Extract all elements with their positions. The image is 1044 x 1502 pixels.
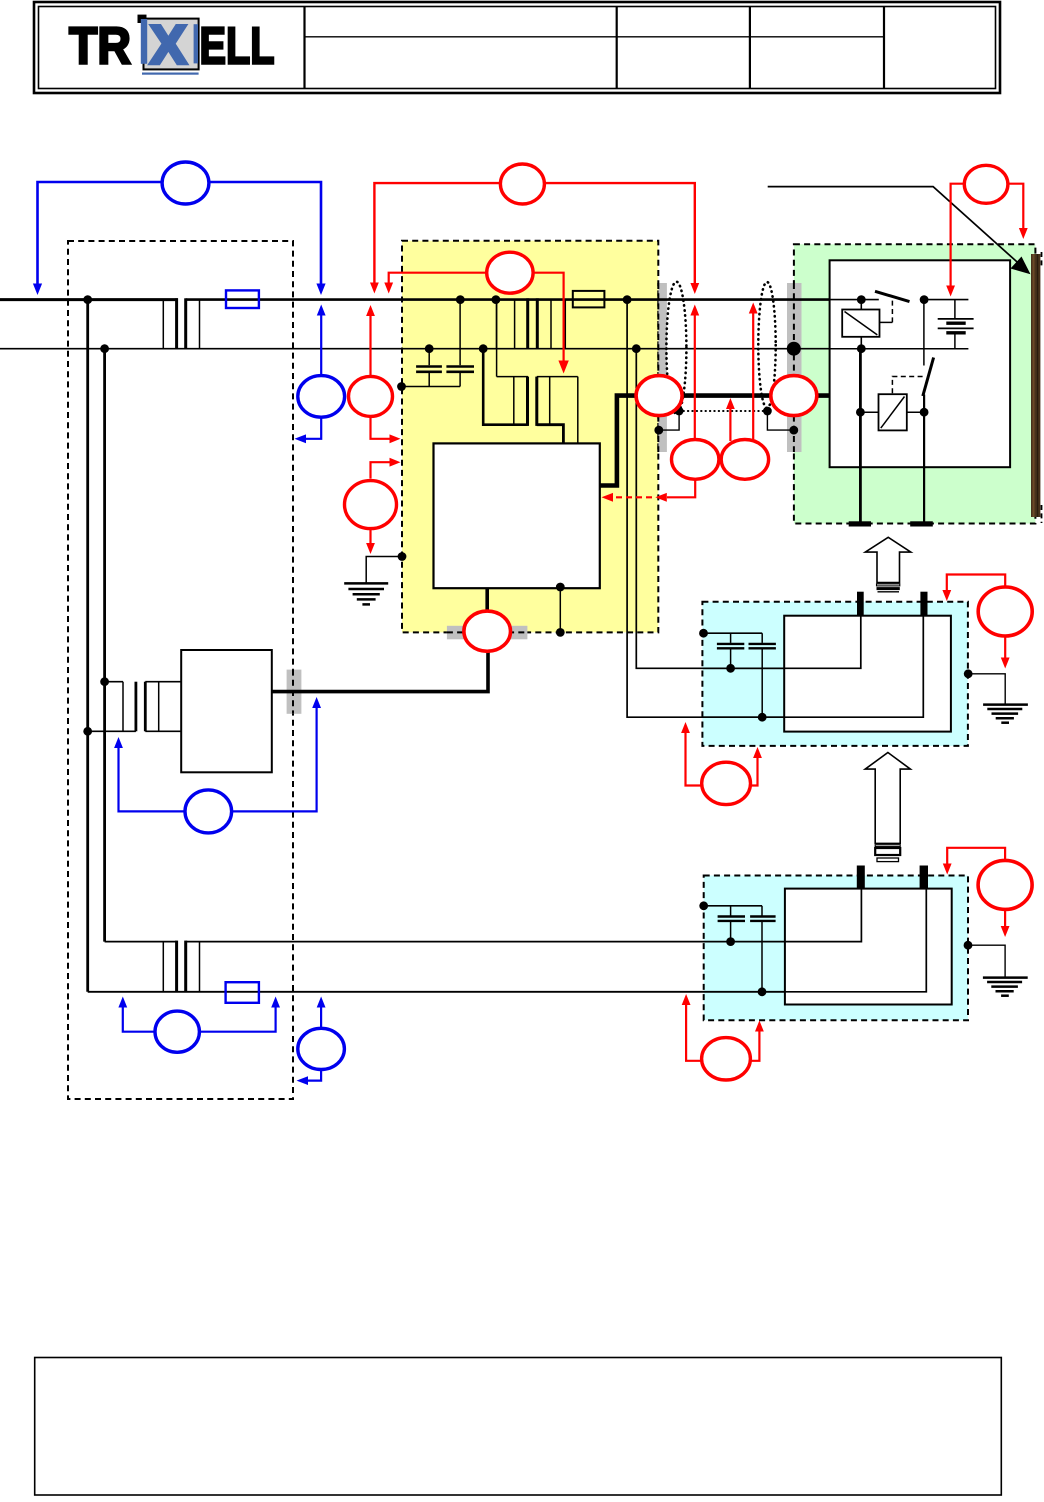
shield node dot right [763, 407, 772, 416]
ground wire cyan2 [968, 945, 1005, 977]
red callout circle 17 (cyan2 right) [978, 860, 1032, 909]
bus L inside white box [830, 299, 879, 301]
PE node dot on yellow edge [398, 552, 407, 561]
signal wire from bus L to battery box 1 [627, 300, 923, 718]
blue callout circle F [298, 1028, 345, 1069]
cap 2b lead top [761, 906, 763, 916]
blue fuse box on bottom bus B [226, 982, 259, 1003]
red callout 13 left branch into white box [951, 184, 965, 286]
relay K1 actuator link solid [880, 321, 893, 323]
big node dot bus N at green edge [787, 342, 801, 356]
red callout 4 arrowhead right [690, 283, 699, 294]
logo blue underline [142, 73, 199, 75]
shield drain wire right [767, 411, 793, 430]
cap 1a lead top [730, 633, 732, 643]
battery plate long 2 [938, 327, 974, 329]
connector gray bar at yellow box bottom edge [447, 626, 528, 640]
callout circle 4 on cable at yellow edge [636, 376, 682, 416]
connector gray bar at generator dashed edge [287, 670, 302, 714]
red callout circle 4 (top) [500, 164, 544, 204]
chassis wire left (relay branch) [859, 349, 862, 522]
mains connector top: socket face thick [175, 298, 178, 348]
battery 1 wire A inside (redraw over box) [703, 616, 861, 669]
relay K2 coil box [879, 394, 907, 430]
red callout B elbow to yellow box [371, 416, 393, 438]
transformer T2 left winding: wire from bus L [496, 300, 498, 377]
red callout 4 arrowhead left [370, 283, 379, 294]
node dot bus L x495.9 [492, 295, 501, 304]
cap 2a node dot on wire A [726, 937, 735, 946]
battery 2 terminal bar 2 [920, 866, 928, 889]
shield drain wire left [659, 411, 679, 430]
node dot bus L x87.7 [83, 295, 92, 304]
blue fuse box on bus L [226, 290, 259, 308]
transformer T1 secondary winding (right cell) [551, 300, 565, 349]
red callout 3 right branch [533, 273, 564, 363]
battery 1 terminal bar 1 [857, 592, 864, 617]
blue callout 2 up arrowhead [317, 305, 326, 316]
blue callout circle 1 [162, 162, 209, 204]
mains connector top: plug pin thin [199, 300, 201, 349]
dashed border redraw over gray bar (green left) [793, 283, 795, 452]
cap 1a node dot on wire A [726, 664, 735, 673]
cap 1b plates [749, 643, 776, 645]
logo blue bar right [194, 24, 198, 63]
node dot relay2 left [856, 408, 865, 417]
mains connector top: plug face thick [184, 298, 187, 348]
blue callout circle E (bottom connector) [155, 1011, 199, 1052]
blue callout E left branch [123, 1008, 155, 1032]
red callout circle 15 (cyan1 right) [978, 587, 1032, 636]
transformer T2 right winding top edge [537, 376, 578, 378]
arrow 2 stack thin bar [877, 858, 899, 862]
Y-capacitor C2 plates [446, 365, 474, 368]
PS output thick cable to detector [600, 396, 830, 486]
wire N drop to generator [103, 349, 106, 942]
cap network 1: top link wire [704, 632, 763, 634]
battery plate short 2 [946, 331, 965, 334]
cap network 2: top link wire [704, 905, 762, 907]
ground node dot cyan2 right edge [964, 941, 973, 950]
red callout circle 10 (PS chassis connector) [464, 611, 511, 651]
mains bus L top segment 2 [186, 298, 879, 301]
cap 1b node dot on wire B [758, 713, 767, 722]
PS bottom tap wire [559, 588, 561, 632]
bottom bus B (to cyan box 2) [88, 991, 927, 993]
detector green enclosure [794, 244, 1036, 523]
red callout 14 right branch [751, 758, 758, 786]
blue callout 2 left arrowhead [295, 434, 307, 443]
svg-text:TR: TR [69, 18, 131, 76]
blue callout 2 up arrow line [320, 315, 322, 376]
Y-capacitor C2 lead from bus L [459, 300, 461, 366]
blue callout 1 arrowhead right [316, 284, 325, 296]
Y-capacitor C1 lead from bus N [428, 349, 430, 366]
cap 1a plates [717, 643, 744, 645]
transformer T2 core bar right [535, 377, 538, 426]
black callout big arrowhead [1011, 257, 1031, 275]
PS bottom tap node dot [556, 583, 565, 592]
relay K2 left lead [860, 411, 878, 413]
red callout 3 left branch [389, 273, 487, 284]
red callout C down arrow [369, 529, 371, 543]
node dot bus L x460.3 [456, 295, 465, 304]
transformer T2 core bar left [526, 377, 529, 426]
ferrite sleeve ellipse 2 (dotted) [758, 282, 775, 408]
detector entrance window (brown bar) [1031, 254, 1040, 517]
earth ground symbol PE [344, 583, 388, 604]
PS chassis wire to bottom connector (thick) [485, 588, 489, 614]
relay K1 top lead [860, 300, 862, 310]
battery-pack cyan enclosure 1 [702, 602, 968, 746]
red callout circle 13 (top right) [964, 165, 1008, 203]
black callout line to detector window [768, 187, 1021, 266]
blue callout E right branch [199, 1008, 275, 1032]
red callout circle 16 (cyan2 bottom) [702, 1038, 751, 1080]
bottom connector: plug pin thin [199, 942, 201, 992]
battery 1 terminal bar 2 [920, 592, 927, 617]
cap network 2: node dot on cyan edge [699, 901, 708, 910]
logo i stem blue [141, 19, 147, 64]
logo i dot black [138, 15, 147, 23]
detector electronics white box [830, 260, 1011, 467]
header column divider 2 [616, 7, 618, 89]
transformer T2 right winding divider [549, 377, 551, 425]
transformer T2 feed wire from bus N [483, 349, 527, 425]
blue callout 1 arrowhead left [33, 284, 42, 296]
bottom bus A segment 2 (to cyan box 2) [186, 941, 862, 943]
generator composite output cable (thick) [272, 651, 488, 692]
generator connector: bottom pin wire [88, 730, 136, 732]
shield drain dot right [789, 426, 798, 435]
battery 2 terminal bar 1 [857, 866, 865, 889]
transformer T2 left winding divider [513, 377, 515, 425]
red callout circle 5 [672, 440, 719, 480]
battery plate short 1 [946, 322, 965, 325]
Y-capacitor C1 lead to PE [428, 373, 430, 387]
red callout 7 up arrow to bus L [752, 313, 754, 441]
shield drain dot left [654, 426, 663, 435]
header row divider [305, 36, 885, 38]
hollow mounting arrow 2 (cyan1 to cyan2) [865, 753, 910, 844]
generator connector: socket pin thin [122, 682, 124, 732]
X-ray generator dashed enclosure [68, 241, 293, 1099]
transformer T2 right winding outer edge down to PS box [577, 377, 579, 443]
wire L drop to generator [86, 300, 89, 992]
red callout 15 bottom branch [1004, 636, 1006, 658]
red callout circle B (below bus left) [349, 376, 393, 416]
node dot relay1 top [857, 295, 866, 304]
connector gray bar at green box left edge [787, 283, 802, 452]
node dot bus N x104.6 [100, 344, 109, 353]
blue callout 2 elbow to generator box [301, 417, 321, 439]
signal wire from bus N to battery box 1 [636, 349, 861, 669]
switch SW2 feed from bus L [923, 300, 925, 366]
switch SW1 arm [875, 291, 910, 301]
blue callout F up arrow [320, 1008, 322, 1029]
generator connector: plug face thick [144, 682, 147, 732]
Y-capacitor C1 plates [416, 365, 442, 368]
node dot on yellow bottom edge [556, 628, 565, 637]
node dot bus N x483.2 [479, 344, 488, 353]
red callout 3 left arrowhead [384, 283, 393, 294]
battery 1 wire B inside (redraw over box) [703, 616, 923, 718]
earth ground symbol cyan2 [983, 978, 1028, 996]
svg-text:ELL: ELL [200, 18, 275, 76]
red callout C arrow to yellow box [371, 462, 393, 478]
cable shield dotted link [679, 410, 767, 412]
node dot relay1 bottom [857, 344, 866, 353]
ground wire cyan1 [968, 674, 1005, 705]
battery bottom lead [954, 333, 956, 349]
dashed border redraw over gray bar (generator edge) [292, 670, 294, 714]
cap 1b lead top [761, 633, 763, 643]
bottom bus A segment 1 [105, 941, 177, 943]
chassis ground bar left [849, 521, 871, 526]
blue callout D right branch [232, 708, 317, 811]
dashed border redraw over gray bar (yellow bottom) [447, 631, 528, 633]
shield node dot left [675, 407, 684, 416]
legend box [35, 1358, 1002, 1496]
relay K2 actuator link dashed [892, 377, 922, 395]
blue callout D left branch [119, 748, 186, 811]
blue callout circle 2 (below bus) [298, 376, 345, 418]
generator connector: node dot top pin [100, 677, 109, 686]
battery module 2 white box [785, 889, 952, 1005]
dashed fragment top right [1041, 252, 1043, 266]
blue callout circle D (generator link) [185, 790, 232, 833]
transformer T1 core bar right [536, 298, 539, 348]
connector gray bar at yellow box right edge [659, 283, 667, 452]
PE wire to ground [366, 557, 402, 584]
ground node dot cyan1 right edge [964, 669, 973, 678]
relay K1 coil box [842, 310, 879, 337]
red callout 14 left branch [686, 733, 702, 786]
red callout 5 up arrow to bus L [694, 316, 696, 440]
battery 2 wire A inside (redraw over box) [785, 889, 862, 942]
red callout 5 dashed arrow to PS box [667, 479, 695, 497]
red callout 3 down arrowhead [558, 361, 568, 374]
dashed fragment bottom right [1041, 505, 1043, 523]
Y-capacitor C2 lead to PE [459, 373, 461, 387]
cap 2b lead bottom [761, 922, 763, 992]
chassis ground bar right [910, 521, 933, 526]
node dot bus N x429.2 [425, 344, 434, 353]
generator connector: top pin wire [105, 681, 123, 683]
hollow mounting arrow 1 (green to cyan1) [865, 537, 911, 582]
red callout 15 top branch [947, 575, 1005, 591]
ferrite sleeve ellipse 1 (dotted) [666, 282, 686, 414]
generator connector: socket face thick [134, 682, 137, 732]
X-ray generator box [181, 650, 272, 772]
transformer T1 core bar left [526, 298, 529, 348]
svg-text:X: X [150, 14, 187, 76]
arrow 1 stack thin line [878, 591, 900, 593]
header inner frame [39, 7, 996, 89]
battery module 1 white box [784, 616, 951, 732]
mains bus N [0, 348, 968, 350]
battery-pack cyan enclosure 2 [704, 876, 968, 1021]
power-supply yellow enclosure [402, 241, 658, 633]
node dot relay2 right [920, 408, 929, 417]
blue callout F elbow left arrow [308, 1070, 321, 1081]
battery 2 wire B inside (redraw over box) [785, 889, 926, 992]
logo gray box around iX [144, 19, 199, 70]
relay K2 right lead [907, 411, 924, 413]
battery top lead [954, 300, 956, 319]
cap 2b plates [750, 915, 776, 917]
arrow 1 stack bar [877, 587, 900, 590]
relay K2 diagonal [881, 397, 905, 429]
red callout 17 bottom branch [1004, 909, 1006, 926]
red callout circle 14 (cyan1 bottom) [702, 762, 751, 804]
transformer T2 secondary bottom edge [537, 425, 564, 444]
dashed border redraw over gray bar (yellow right) [657, 283, 659, 452]
red callout circle 3 (inner yellow) [487, 252, 533, 293]
red callout 17 top branch [947, 848, 1005, 864]
PE wire of Y-caps [400, 386, 460, 388]
red callout 4 top line [374, 183, 694, 283]
arrow 1 stack line [877, 584, 900, 586]
header outer frame [34, 2, 1000, 93]
fuse box on bus L inside yellow [573, 291, 605, 308]
node dot bus N x636.3 [632, 344, 641, 353]
red callout 16 right branch [750, 1032, 759, 1061]
bottom connector: socket pin thin [162, 942, 164, 992]
red callout 7 short arrow to cable [729, 409, 731, 442]
header column divider 1 [303, 7, 305, 89]
node dot bus L x627.1 [623, 295, 632, 304]
bus N inside white box [830, 348, 969, 350]
bottom connector: socket face thick [175, 941, 178, 992]
generator connector: node dot bottom pin [83, 727, 92, 736]
arrow 2 stack bar [875, 848, 900, 855]
node dot PE on yellow edge [397, 382, 406, 391]
mains bus L top segment 1 [0, 298, 178, 301]
mains bus L top segment 3 (after switch) [924, 299, 968, 301]
callout circle 8 on cable at green edge [771, 376, 817, 416]
cap 2a lead bottom [730, 922, 732, 942]
generator connector: wires to generator box [145, 681, 181, 683]
blue callout 1 top line [38, 182, 322, 284]
relay K1 actuator link dashed [891, 301, 893, 323]
red callout circle C (PE) [345, 481, 397, 529]
power supply unit box [434, 443, 600, 588]
earth ground symbol cyan1 [983, 705, 1028, 723]
generator connector: plug pin thin [158, 682, 160, 732]
red callout 13 right branch to window [1008, 184, 1023, 228]
transformer T1 primary winding (left cell) [497, 300, 515, 349]
relay K1 bottom lead [860, 337, 862, 349]
battery plate long 1 [938, 318, 974, 320]
switch SW2 arm [923, 358, 934, 397]
red callout 16 left branch [686, 1005, 702, 1061]
relay K1 diagonal [845, 312, 878, 335]
cap 2a lead top [730, 906, 732, 916]
chassis wire right (switch branch) [923, 395, 925, 522]
mains connector top: socket pin thin [162, 300, 164, 349]
node dot switch1 contact [920, 295, 929, 304]
arrow 2 stack line [875, 845, 900, 847]
red callout circle 7 [721, 440, 768, 480]
cap network 1: node dot on cyan edge [699, 629, 708, 638]
bottom connector: plug face thick [184, 941, 187, 992]
cap 1b lead bottom [761, 649, 763, 717]
header column divider 3 [749, 7, 751, 89]
transformer T2 left winding top edge [497, 376, 528, 378]
cap 2b node dot on wire B [758, 987, 767, 996]
cap 2a plates [718, 915, 745, 917]
header column divider 4 [883, 7, 885, 89]
cap 1a lead bottom [730, 649, 732, 668]
red callout B up arrow [369, 316, 371, 376]
